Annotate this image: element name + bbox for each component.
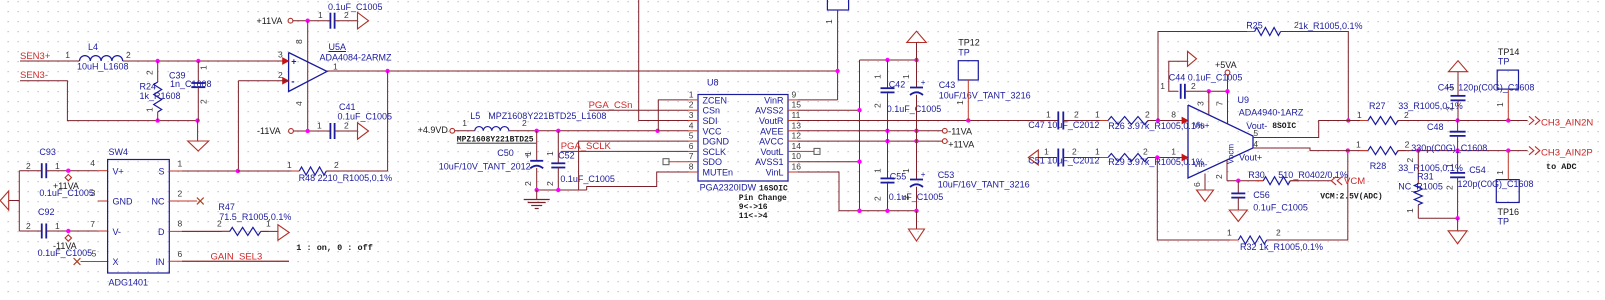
wire feedback down to R48: [387, 71, 389, 171]
offpage arrow left lower input: [1028, 150, 1038, 165]
svg-text:C42: C42: [889, 80, 906, 90]
svg-text:Pin Change: Pin Change: [739, 194, 787, 203]
resistor R48: [291, 170, 299, 172]
power tap +11VA: [65, 174, 71, 180]
junction upper feedback: [1156, 118, 1160, 122]
ground AGND far right: [1457, 218, 1459, 231]
svg-text:8: 8: [1171, 109, 1176, 119]
svg-text:L5: L5: [470, 111, 480, 121]
power arrow up AVDD: [907, 31, 927, 42]
junction node C39 top: [196, 59, 200, 63]
capacitor C45: [1457, 72, 1459, 96]
pin 2 U8 CSn: [688, 109, 698, 111]
wire R48 to feedback: [326, 170, 387, 172]
svg-text:IN: IN: [156, 257, 165, 267]
svg-text:+: +: [921, 78, 926, 87]
ground U9 pin6: [1197, 190, 1214, 202]
capacitor C55: [881, 177, 895, 179]
junction ZCEN tie: [655, 129, 659, 133]
svg-text:15: 15: [792, 100, 802, 110]
wire C44 to +5VA rail: [1185, 90, 1228, 92]
svg-text:AVSS2: AVSS2: [755, 106, 783, 116]
svg-text:10uF/16V_TANT_3216: 10uF/16V_TANT_3216: [939, 91, 1031, 101]
svg-text:C43: C43: [939, 80, 956, 90]
svg-text:2: 2: [126, 50, 131, 60]
svg-text:10uH_L1608: 10uH_L1608: [77, 62, 129, 72]
stub D + wire to R47: [169, 230, 229, 232]
pin 3 U8 SDI: [688, 120, 698, 122]
op-amp U5A: [289, 53, 327, 92]
svg-text:1: 1: [462, 118, 467, 128]
wire GAIN_SEL3: [169, 260, 289, 262]
svg-text:0.1uF_C1005: 0.1uF_C1005: [1253, 203, 1308, 213]
svg-text:C45: C45: [1438, 83, 1455, 93]
svg-text:2: 2: [199, 99, 209, 104]
svg-text:1 : on, 0 : off: 1 : on, 0 : off: [296, 243, 373, 253]
junction R24 bottom: [156, 118, 160, 122]
wire R26 to U9 +in: [1148, 120, 1183, 122]
svg-text:1: 1: [1445, 163, 1455, 168]
svg-text:ADG1401: ADG1401: [109, 278, 149, 288]
wire top connector down to VinR: [837, 10, 839, 100]
wire arrow to C44: [1169, 61, 1188, 91]
offpage arrow right R47: [278, 225, 289, 241]
capacitor C43 tantalum: [916, 60, 918, 88]
wire R29 to U9 -in: [1148, 157, 1183, 159]
svg-text:R30: R30: [1248, 170, 1265, 180]
svg-text:2: 2: [1191, 81, 1196, 91]
svg-text:NC_R1005: NC_R1005: [1398, 182, 1443, 192]
svg-text:1k_R1005,0.1%: 1k_R1005,0.1%: [1299, 21, 1363, 31]
wire VCC rail +4.9VD to U8 pin4: [509, 130, 688, 132]
svg-text:5: 5: [92, 249, 97, 259]
wire C41 to power arrow: [335, 130, 358, 132]
power arrow right bottom: [358, 123, 369, 140]
svg-text:SDI: SDI: [703, 116, 718, 126]
resistor R29: [1100, 157, 1108, 159]
power arrow right top: [358, 12, 369, 29]
svg-text:0.1uF_C1005: 0.1uF_C1005: [560, 174, 615, 184]
svg-text:2: 2: [545, 181, 555, 186]
svg-text:AVCC: AVCC: [759, 137, 784, 147]
wire C40 to power arrow: [335, 20, 358, 22]
capacitor C56: [1237, 181, 1239, 194]
stub SDO with no-ERC square: [669, 161, 688, 163]
wire +4.9VD to L5: [455, 130, 475, 132]
svg-text:13: 13: [792, 120, 802, 130]
diff amp U9 ADA4940-1ARZ: [1188, 105, 1253, 178]
svg-text:1: 1: [824, 19, 834, 24]
resistor R31 vertical: [1417, 151, 1419, 184]
svg-text:2: 2: [1145, 109, 1150, 119]
ground rail DGND: [537, 189, 587, 191]
port CH3_AIN2P: [1529, 146, 1540, 154]
svg-text:R25: R25: [1246, 21, 1263, 31]
junction lower feedback: [1155, 155, 1159, 159]
svg-text:to ADC: to ADC: [1546, 162, 1577, 172]
pin 2 U9 VOCM: [1226, 160, 1228, 181]
svg-text:1: 1: [1046, 109, 1051, 119]
svg-text:10uF/16V_TANT_3216: 10uF/16V_TANT_3216: [938, 180, 1030, 190]
junction node R24 top: [156, 59, 160, 63]
svg-text:1: 1: [955, 100, 965, 105]
svg-text:R24: R24: [140, 82, 157, 92]
wire C47 to R26: [1063, 120, 1108, 122]
stub GND: [98, 200, 108, 202]
junction C54: [1455, 148, 1459, 152]
stub VoutL no-ERC square: [798, 150, 814, 152]
svg-text:U5A: U5A: [329, 42, 347, 52]
svg-text:1: 1: [1227, 228, 1232, 238]
pin 9 U8 VinR: [788, 99, 798, 101]
svg-text:0.1uF_C1005: 0.1uF_C1005: [328, 2, 383, 12]
svg-text:TP: TP: [1498, 57, 1510, 67]
svg-text:1: 1: [317, 121, 322, 131]
svg-text:V-: V-: [113, 227, 122, 237]
svg-text:10: 10: [792, 151, 802, 161]
svg-text:7: 7: [689, 151, 694, 161]
svg-text:3: 3: [91, 188, 96, 198]
junction gnd rail: [1455, 216, 1459, 220]
junction S node: [236, 169, 240, 173]
junction U5A out to VinR: [835, 69, 839, 73]
svg-text:1: 1: [1405, 208, 1415, 213]
svg-text:SEN3-: SEN3-: [20, 70, 48, 81]
junction C50 top: [535, 129, 539, 133]
resistor R28: [1360, 150, 1368, 152]
svg-text:R28: R28: [1370, 161, 1387, 171]
junction C43 AVEE: [914, 129, 918, 133]
capacitor C50 tantalum: [536, 131, 538, 161]
wire Vout- to R27: [1253, 121, 1368, 138]
pin 1 U8 ZCEN: [688, 99, 698, 101]
svg-text:AVEE: AVEE: [760, 126, 783, 136]
svg-text:1: 1: [689, 89, 694, 99]
svg-text:0.1uF_C1005: 0.1uF_C1005: [39, 188, 94, 198]
junction +11VA tap: [66, 169, 70, 173]
svg-text:2: 2: [1445, 106, 1455, 111]
svg-text:PGA_CSn: PGA_CSn: [589, 100, 633, 111]
svg-text:8: 8: [689, 162, 694, 172]
svg-text:2: 2: [1404, 110, 1409, 120]
svg-text:2: 2: [873, 196, 883, 201]
svg-text:C47 10uF_C2012: C47 10uF_C2012: [1028, 120, 1099, 130]
pin 15 U8 AVSS2: [788, 109, 798, 111]
svg-text:+: +: [921, 170, 926, 179]
svg-text:2: 2: [873, 103, 883, 108]
junction C42 top: [885, 58, 889, 62]
wire arrow to C51: [1038, 157, 1057, 159]
capacitor C53 tantalum: [910, 179, 923, 181]
svg-text:9<->16: 9<->16: [739, 203, 768, 212]
svg-text:SDO: SDO: [703, 157, 723, 167]
svg-text:510_R0402/0.1%: 510_R0402/0.1%: [1278, 170, 1348, 180]
svg-text:ZCEN: ZCEN: [703, 95, 728, 105]
power arrow up C45: [1449, 61, 1468, 72]
junction U5A pin4 rail: [306, 129, 310, 133]
svg-text:1: 1: [1356, 140, 1361, 150]
svg-text:S: S: [158, 167, 164, 177]
svg-text:5: 5: [689, 131, 694, 141]
svg-text:1k_R1608: 1k_R1608: [140, 91, 181, 101]
svg-text:1: 1: [1171, 147, 1176, 157]
offpage arrow left: [9, 200, 20, 202]
junction TP16: [1506, 148, 1510, 152]
wire AVCC row to +11VA: [798, 140, 942, 142]
wire U5A output: [327, 70, 838, 72]
wire AVSS1 to rail: [798, 161, 860, 163]
svg-text:X: X: [113, 257, 119, 267]
capacitor C40 0.1uF: [329, 13, 331, 29]
svg-text:1: 1: [1160, 81, 1165, 91]
pin 5 U8 DGND: [688, 140, 698, 142]
svg-text:1: 1: [266, 219, 271, 229]
ground AGND right cluster: [916, 211, 918, 229]
resistor R27: [1360, 120, 1368, 122]
rail AVSS vertical: [859, 60, 861, 211]
junction C50 bottom: [535, 188, 539, 192]
svg-text:5: 5: [1253, 128, 1258, 138]
junction R32 to Vout+: [1346, 148, 1350, 152]
wire R27 to port CH3_AIN2N: [1398, 120, 1528, 122]
svg-text:1: 1: [178, 159, 183, 169]
svg-text:R27: R27: [1369, 101, 1386, 111]
no-connect NC stub: [169, 200, 197, 202]
pin 13 U8 AVEE: [788, 130, 798, 132]
svg-text:SEN3+: SEN3+: [20, 51, 51, 62]
svg-text:TP12: TP12: [958, 38, 980, 48]
svg-text:D: D: [158, 227, 165, 237]
svg-text:Vin-: Vin-: [1193, 160, 1207, 169]
wire VOCM row: [1227, 180, 1263, 182]
svg-text:-: -: [291, 77, 294, 88]
wire SDI from top edge: [639, 0, 688, 121]
svg-text:-11VA: -11VA: [948, 126, 972, 136]
svg-text:ADA4940-1ARZ: ADA4940-1ARZ: [1239, 108, 1304, 118]
stub V+: [98, 170, 108, 172]
svg-text:1: 1: [545, 151, 555, 156]
svg-text:14: 14: [792, 141, 802, 151]
capacitor C39: [197, 61, 199, 83]
junction C55 bottom: [885, 209, 889, 213]
svg-text:0.1uF_C1005: 0.1uF_C1005: [887, 104, 942, 114]
svg-text:C93: C93: [39, 147, 56, 157]
svg-text:8: 8: [294, 39, 304, 44]
pin 7 U9 supply: [1227, 91, 1229, 124]
input arrow U9 -: [1182, 154, 1188, 160]
capacitor C47: [1057, 112, 1059, 130]
svg-text:C92: C92: [38, 207, 55, 217]
resistor R26: [1100, 120, 1108, 122]
svg-text:2: 2: [26, 221, 31, 231]
svg-text:1: 1: [1357, 110, 1362, 120]
svg-text:2: 2: [26, 161, 31, 171]
svg-text:SW4: SW4: [109, 147, 129, 157]
svg-text:Vin+: Vin+: [1193, 121, 1209, 130]
svg-text:C52: C52: [558, 151, 575, 161]
pin 11 U8 VoutR: [788, 120, 798, 122]
wire U5A - input: [238, 80, 288, 82]
svg-text:9: 9: [792, 89, 797, 99]
pin 4 U8 VCC: [688, 130, 698, 132]
svg-text:TP: TP: [1498, 217, 1510, 227]
svg-text:CH3_AIN2N: CH3_AIN2N: [1541, 118, 1593, 129]
wire left input arrow rail: [18, 171, 20, 231]
junction U5A pin8 rail: [306, 19, 310, 23]
svg-text:16: 16: [792, 162, 802, 172]
pin 3 U9 supply: [1208, 91, 1210, 115]
svg-text:C54: C54: [1469, 165, 1486, 175]
svg-text:1: 1: [1495, 170, 1505, 175]
svg-text:+: +: [291, 57, 296, 67]
pin 8 U8 MUTEn: [688, 171, 698, 173]
junction R31: [1416, 148, 1420, 152]
input arrow - U5A: [283, 78, 289, 84]
svg-text:-11VA: -11VA: [257, 126, 281, 136]
svg-text:11<->4: 11<->4: [739, 212, 768, 221]
svg-text:2: 2: [1214, 174, 1224, 179]
wire R25 to Vout-: [1281, 32, 1349, 121]
svg-text:4: 4: [689, 120, 694, 130]
wire MUTEn to ground rail: [587, 172, 688, 190]
svg-text:U9: U9: [1238, 95, 1250, 105]
svg-text:1: 1: [901, 74, 911, 79]
svg-text:10uF/10V_TANT_2012: 10uF/10V_TANT_2012: [439, 161, 531, 171]
svg-text:VCC: VCC: [703, 126, 723, 136]
junction C42 AVCC: [885, 139, 889, 143]
svg-text:NC: NC: [152, 197, 165, 207]
junction TP12: [966, 118, 970, 122]
svg-text:1: 1: [333, 62, 338, 72]
svg-text:1: 1: [145, 107, 155, 112]
junction C52 top: [556, 129, 560, 133]
input arrow U9 +: [1182, 117, 1188, 123]
capacitor C51: [1057, 149, 1059, 167]
svg-text:2: 2: [1405, 140, 1410, 150]
power arrow right C44 net: [1188, 51, 1197, 66]
svg-text:11: 11: [792, 110, 801, 120]
svg-text:8: 8: [178, 219, 183, 229]
svg-text:6: 6: [178, 249, 183, 259]
junction C53 bottom: [914, 209, 918, 213]
svg-text:1n_C1608: 1n_C1608: [170, 79, 212, 89]
svg-text:VCM: VCM: [1344, 176, 1365, 187]
svg-text:1: 1: [287, 160, 292, 170]
svg-text:+4.9VD: +4.9VD: [418, 125, 449, 135]
resistor R24: [157, 61, 159, 82]
ground AGND under C39: [197, 121, 199, 141]
pin 10 U8 AVSS1: [788, 161, 798, 163]
no-connect X pin wire: [81, 261, 108, 263]
wire L4 to opamp U5A + input: [123, 60, 289, 62]
svg-text:1: 1: [523, 151, 533, 156]
svg-text:1: 1: [65, 50, 70, 60]
svg-text:16SOIC: 16SOIC: [759, 185, 788, 194]
svg-text:3: 3: [1196, 101, 1206, 106]
svg-text:+11VA: +11VA: [948, 139, 974, 149]
svg-text:TP16: TP16: [1498, 207, 1520, 217]
junction feedback: [385, 69, 389, 73]
svg-text:1: 1: [873, 74, 883, 79]
svg-text:C44 0.1uF_C1005: C44 0.1uF_C1005: [1169, 73, 1243, 83]
svg-text:GAIN_SEL3: GAIN_SEL3: [211, 251, 263, 262]
svg-text:V+: V+: [113, 167, 124, 177]
wire PGA_CSn to U8 pin2: [589, 109, 688, 111]
svg-text:R32 1k_R1005,0.1%: R32 1k_R1005,0.1%: [1240, 242, 1323, 252]
stub V-: [98, 230, 108, 232]
power tap -11VA: [65, 235, 71, 241]
junction pin3 rail: [1207, 89, 1211, 93]
wire AVEE row to -11VA: [798, 130, 942, 132]
wire U5A minus to SW4 S: [237, 81, 239, 171]
pin 14 U8 VoutL: [788, 150, 798, 152]
svg-text:TP14: TP14: [1498, 47, 1520, 57]
wire SEN3-: [20, 81, 198, 121]
svg-text:1: 1: [199, 65, 209, 70]
ground DGND symbol: [536, 190, 538, 199]
svg-text:+5VA: +5VA: [1215, 60, 1237, 70]
svg-text:VinR: VinR: [764, 95, 784, 105]
input arrow + U5A: [283, 58, 289, 64]
capacitor C41: [329, 123, 331, 139]
svg-text:12: 12: [792, 131, 802, 141]
svg-text:U8: U8: [707, 78, 719, 88]
svg-text:VoutR: VoutR: [759, 116, 784, 126]
svg-text:1: 1: [55, 161, 60, 171]
wire VinR to U8: [798, 99, 838, 101]
junction C42 AVEE: [885, 129, 889, 133]
wire R30 to VCM port: [1290, 180, 1331, 182]
pin 16 U8 VinL: [788, 171, 798, 173]
svg-text:TP: TP: [958, 48, 970, 58]
capacitor C42: [887, 60, 889, 88]
svg-text:0.1uF_C1005: 0.1uF_C1005: [38, 248, 93, 258]
svg-text:1: 1: [1095, 109, 1100, 119]
svg-text:2: 2: [344, 10, 349, 20]
svg-text:4: 4: [90, 158, 95, 168]
wire feedback bottom: [1157, 158, 1238, 241]
junction -11VA tap: [66, 229, 70, 233]
wire -11VA to C41: [294, 130, 331, 132]
svg-text:2: 2: [145, 70, 155, 75]
inductor L5: [475, 127, 509, 131]
svg-text:2: 2: [522, 118, 527, 128]
svg-text:ADA4084-2ARMZ: ADA4084-2ARMZ: [320, 53, 393, 63]
svg-text:0.1uF_C1005: 0.1uF_C1005: [889, 192, 944, 202]
junction C56: [1236, 179, 1240, 183]
svg-text:1: 1: [1495, 102, 1505, 107]
wire +11VA to C40: [293, 20, 331, 22]
svg-text:PGA2320IDW: PGA2320IDW: [700, 183, 757, 193]
svg-text:2: 2: [1276, 228, 1281, 238]
svg-text:2: 2: [344, 121, 349, 131]
wire VinL to ground rail: [798, 172, 917, 211]
svg-text:2: 2: [1074, 109, 1079, 119]
junction C43 AVCC: [914, 139, 918, 143]
wire ZCEN to VCC rail: [658, 100, 688, 131]
svg-text:2: 2: [1143, 147, 1148, 157]
svg-text:120p(C0G)_C1608: 120p(C0G)_C1608: [1458, 179, 1534, 189]
svg-text:R47: R47: [218, 202, 235, 212]
svg-text:R31: R31: [1417, 171, 1434, 181]
svg-text:VoutL: VoutL: [760, 147, 783, 157]
svg-text:71.5_R1005,0.1%: 71.5_R1005,0.1%: [219, 212, 291, 222]
svg-text:VinL: VinL: [766, 168, 784, 178]
svg-text:7: 7: [1215, 101, 1225, 106]
svg-text:3: 3: [689, 110, 694, 120]
junction R25 to Vout-: [1346, 118, 1350, 122]
svg-text:330p(C0G)_C1608: 330p(C0G)_C1608: [1411, 143, 1487, 153]
